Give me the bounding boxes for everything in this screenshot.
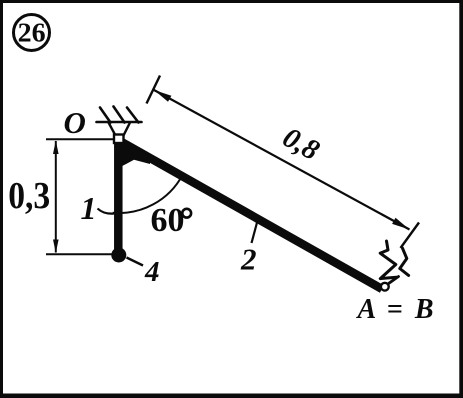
- svg-text:1: 1: [81, 190, 97, 226]
- fixed pivot support hatching: [97, 107, 142, 123]
- svg-text:O: O: [64, 105, 86, 140]
- pin joint square at O: [114, 135, 124, 144]
- dimension line 0,3: [55, 141, 57, 253]
- svg-text:4: 4: [144, 256, 160, 288]
- problem number badge 26: [14, 15, 50, 51]
- joint circle 4 at bottom of bar 1: [111, 248, 126, 263]
- rod 2 (diagonal link): [119, 141, 382, 290]
- tick at start of 0,8 dimension: [147, 76, 161, 104]
- tick at end of 0,8 dimension: [401, 223, 420, 249]
- arrowhead start: [154, 90, 171, 102]
- dimension line 0,8 (parallel to rod): [154, 90, 410, 230]
- zigzag mark 3 at A: [389, 277, 399, 284]
- extension line bottom (0,3 dimension): [46, 253, 112, 255]
- extension line top (0,3 dimension): [46, 138, 114, 140]
- zigzag mark 2 at A: [400, 248, 409, 275]
- zigzag mark 1 at A: [380, 241, 396, 279]
- hollow joint circle at A: [381, 283, 389, 291]
- pivot support triangle: [109, 123, 131, 136]
- svg-text:2: 2: [240, 242, 257, 277]
- svg-text:60: 60: [151, 202, 185, 239]
- 60 degree angle arc: [113, 175, 183, 213]
- bar 1 (vertical link): [114, 139, 123, 252]
- arrowhead end: [392, 218, 409, 230]
- junction fillet wedge at O: [115, 140, 151, 170]
- svg-text:26: 26: [18, 18, 46, 48]
- svg-text:0,3: 0,3: [8, 175, 50, 217]
- label 4 with leader: [127, 258, 144, 266]
- svg-text:A = B: A = B: [356, 294, 434, 325]
- value label 0,8: [277, 121, 325, 167]
- label 2 with leader: [252, 223, 258, 244]
